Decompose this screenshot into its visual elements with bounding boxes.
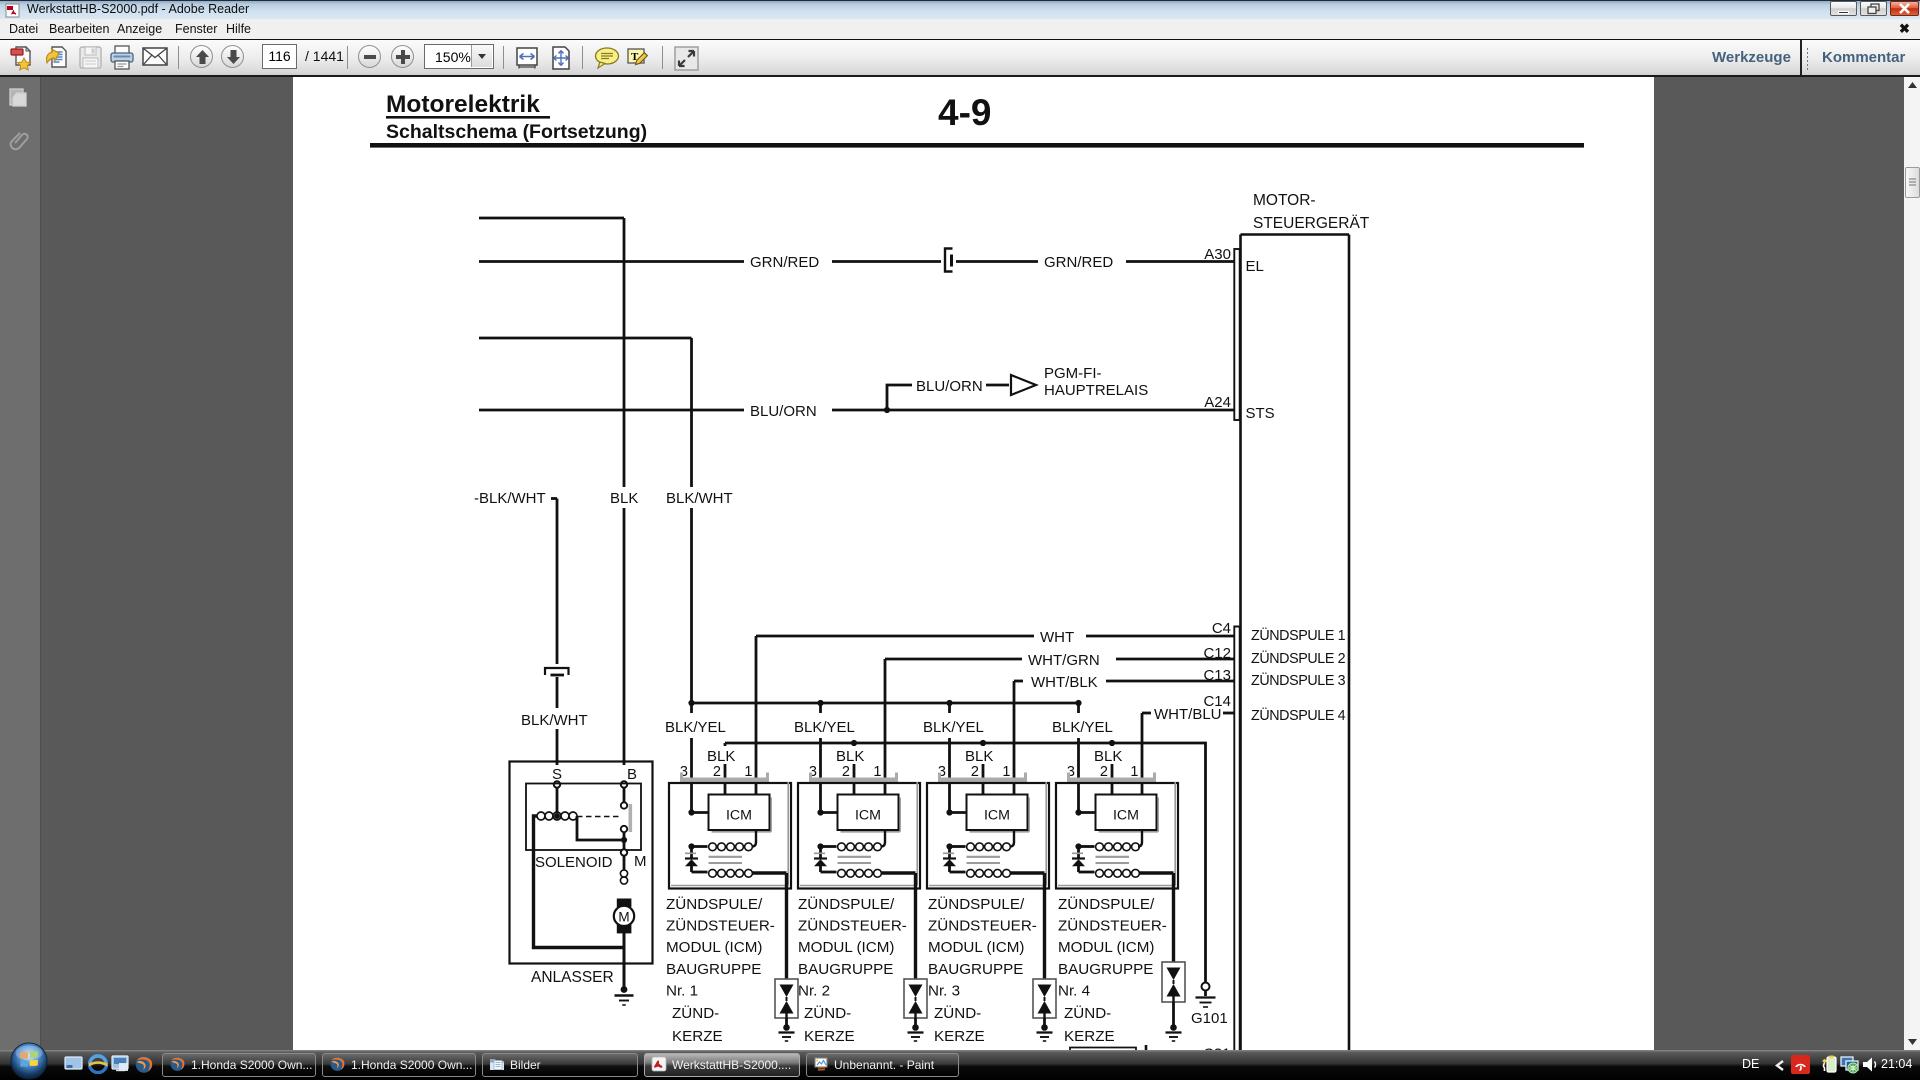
junction pin3 to ICM3 xyxy=(946,809,966,815)
junction pin3 to ICM2 xyxy=(817,809,837,815)
transformer T4 core xyxy=(1096,857,1130,863)
wire BLU/ORN to ECU pin A24 xyxy=(479,409,1234,412)
svg-text:BLK: BLK xyxy=(1094,748,1122,765)
contact (upper) xyxy=(621,802,627,808)
svg-text:MODUL (ICM): MODUL (ICM) xyxy=(798,939,894,956)
wire BLK drop ICM2 pin 2 xyxy=(853,743,856,796)
node ZUENDSPULE/ZUENDSTEUER-MODUL (ICM) BAUGRUPPE Nr. 1 label xyxy=(666,895,775,1045)
ground (spark plug 1) xyxy=(779,1024,795,1041)
node ZUENDSPULE 2 label xyxy=(1251,649,1346,667)
pin numbers ICM2 xyxy=(809,764,882,780)
junction primary coil T4 xyxy=(1075,843,1081,849)
fit page icon xyxy=(549,46,573,70)
svg-text:Nr. 4: Nr. 4 xyxy=(1058,983,1090,1000)
solenoid coil xyxy=(537,812,577,820)
spark plug ZUENDKERZE 4 xyxy=(1162,962,1185,1002)
svg-text:A30: A30 xyxy=(1204,246,1231,263)
pin C12 xyxy=(1203,645,1231,662)
svg-text:BAUGRUPPE: BAUGRUPPE xyxy=(666,961,761,978)
svg-text:GRN/RED: GRN/RED xyxy=(750,254,819,271)
contact actuator bar xyxy=(629,804,633,832)
junction BLK/YEL bus / ICM3 pin 3 xyxy=(946,700,952,706)
starter ANLASSER outer box xyxy=(510,762,653,964)
linkage (dashed) xyxy=(577,816,620,818)
wire B to contact xyxy=(623,788,626,802)
node BLK/YEL label 1 xyxy=(663,713,726,738)
node ANLASSER label xyxy=(531,969,614,986)
spark plug ZUENDKERZE 3 xyxy=(1033,979,1056,1018)
wire BLK/YEL drop ICM1 pin 3 xyxy=(690,703,693,813)
node ZUENDSPULE/ZUENDSTEUER-MODUL (ICM) BAUGRUPPE Nr. 4 label xyxy=(1058,895,1167,1045)
wire branch to PGM-FI main relay xyxy=(887,385,1009,410)
svg-text:MODUL (ICM): MODUL (ICM) xyxy=(1058,939,1154,956)
contact (lower) xyxy=(621,826,627,832)
transformer T1 core xyxy=(709,857,743,863)
box partial (bottom) xyxy=(1070,1048,1136,1052)
svg-text:ZÜND-: ZÜND- xyxy=(934,1004,981,1022)
page header title xyxy=(386,91,647,143)
junction BLK bus / ICM3 pin 2 xyxy=(980,740,986,746)
svg-text:ZÜNDSPULE/: ZÜNDSPULE/ xyxy=(666,895,763,913)
ICM2 assembly box xyxy=(798,782,920,889)
terminal S xyxy=(550,765,566,788)
svg-text:BLK/WHT: BLK/WHT xyxy=(666,490,733,507)
ECU connector bracket C xyxy=(1234,627,1239,1052)
connector strip ICM4 xyxy=(1067,773,1156,783)
create-pdf icon xyxy=(10,45,35,71)
node BLK/WHT label (mid column) xyxy=(663,487,733,508)
pin STS label xyxy=(1246,405,1275,422)
header rule xyxy=(370,143,1584,148)
svg-text:PGM-FI-: PGM-FI- xyxy=(1044,365,1102,382)
svg-text:ZÜNDSTEUER-: ZÜNDSTEUER- xyxy=(1058,917,1167,935)
svg-text:Nr. 1: Nr. 1 xyxy=(666,983,698,1000)
svg-text:BLK/YEL: BLK/YEL xyxy=(923,719,984,736)
junction BLK bus / ICM2 pin 2 xyxy=(851,740,857,746)
svg-text:ZÜNDSPULE/: ZÜNDSPULE/ xyxy=(1058,895,1155,913)
node BLK/YEL label 2 xyxy=(792,713,855,738)
node C31 partial label xyxy=(1203,1046,1231,1063)
pin numbers ICM4 xyxy=(1067,764,1139,780)
connector in-line (BLK/WHT) xyxy=(545,668,569,675)
svg-text:C4: C4 xyxy=(1212,620,1231,637)
svg-text:BLK: BLK xyxy=(836,748,864,765)
email icon xyxy=(142,47,168,67)
wire BLK/YEL drop ICM2 pin 3 xyxy=(819,703,822,813)
spark plug ZUENDKERZE 2 xyxy=(904,979,927,1018)
wire GRN/RED to ECU pin A30 xyxy=(479,260,1234,263)
transformer T1 primary xyxy=(692,830,757,851)
svg-text:BLK: BLK xyxy=(965,748,993,765)
page number 4-9 xyxy=(938,92,991,133)
save icon (disabled) xyxy=(78,45,103,71)
svg-text:ICM: ICM xyxy=(984,808,1010,824)
node BLK label 2 xyxy=(833,746,871,765)
junction pin3 to ICM4 xyxy=(1075,809,1095,815)
node BLK/WHT label (lower) xyxy=(518,708,592,729)
junction pin3 to ICM1 xyxy=(688,809,708,815)
svg-text:BLK: BLK xyxy=(610,490,638,507)
svg-text:KERZE: KERZE xyxy=(1064,1028,1115,1045)
junction BLU/ORN branch xyxy=(884,407,890,413)
node ZUENDSPULE 1 label xyxy=(1251,626,1346,644)
svg-text:C12: C12 xyxy=(1203,645,1231,662)
svg-text:4-9: 4-9 xyxy=(938,92,991,133)
tray xyxy=(1742,1057,1759,1071)
wire BLK/YEL drop ICM3 pin 3 xyxy=(948,703,951,813)
svg-text:STS: STS xyxy=(1246,405,1275,422)
node ZUENDSPULE/ZUENDSTEUER-MODUL (ICM) BAUGRUPPE Nr. 3 label xyxy=(928,895,1037,1045)
svg-text:A24: A24 xyxy=(1204,394,1231,411)
page up xyxy=(190,45,213,68)
transformer T2 primary xyxy=(821,830,886,851)
pin C4 xyxy=(1212,620,1231,637)
connector in-line (GRN/RED) xyxy=(945,249,953,272)
svg-text:ZÜND-: ZÜND- xyxy=(804,1004,851,1022)
svg-text:BLK/YEL: BLK/YEL xyxy=(665,719,726,736)
node G101 label xyxy=(1191,1010,1228,1027)
wire BLK/YEL bus xyxy=(692,702,1079,705)
terminal B xyxy=(620,765,640,788)
transformer T3 secondary xyxy=(950,869,1045,877)
wire BLK drop ICM1 pin 2 xyxy=(724,743,727,796)
svg-text:Nr. 2: Nr. 2 xyxy=(798,983,830,1000)
svg-text:BAUGRUPPE: BAUGRUPPE xyxy=(1058,961,1153,978)
svg-text:ICM: ICM xyxy=(1113,808,1139,824)
node BLK label 1 xyxy=(704,746,742,765)
svg-text:ICM: ICM xyxy=(726,808,752,824)
svg-text:G101: G101 xyxy=(1191,1010,1228,1027)
wire plug 2 to ground xyxy=(914,1018,917,1025)
pin numbers ICM1 xyxy=(680,764,753,780)
node WHT/BLK label xyxy=(1031,674,1098,691)
svg-text:ZÜNDSPULE 2: ZÜNDSPULE 2 xyxy=(1251,649,1346,667)
svg-text:BAUGRUPPE: BAUGRUPPE xyxy=(928,961,1023,978)
pin A24 xyxy=(1204,394,1231,411)
node PGM-FI-HAUPTRELAIS label xyxy=(1044,365,1148,399)
junction BLK/YEL bus / ICM4 pin 3 xyxy=(1075,700,1081,706)
ICM4 assembly box xyxy=(1056,782,1178,889)
spark plug ZUENDKERZE 1 xyxy=(775,979,798,1018)
ICM1 assembly box xyxy=(669,782,791,889)
comment bubble icon xyxy=(594,47,620,71)
svg-text:ZÜNDSTEUER-: ZÜNDSTEUER- xyxy=(666,917,775,935)
ECU box xyxy=(1241,235,1350,1052)
svg-text:WHT: WHT xyxy=(1040,629,1074,646)
diode D2 xyxy=(814,847,827,873)
svg-text:Schaltschema (Fortsetzung): Schaltschema (Fortsetzung) xyxy=(386,121,647,143)
wire BLK/YEL drop ICM4 pin 3 xyxy=(1077,703,1080,813)
diode D4 xyxy=(1072,847,1085,873)
pin numbers ICM3 xyxy=(938,764,1011,780)
node ZUENDSPULE 4 label xyxy=(1251,706,1346,724)
junction BLK bus / ICM4 pin 2 xyxy=(1109,740,1115,746)
motor M1 (starter motor) xyxy=(614,899,634,934)
transformer T4 secondary xyxy=(1079,869,1174,877)
transformer T4 primary xyxy=(1079,830,1143,851)
ground G101 xyxy=(1196,983,1216,1008)
wire ignition-switch feed (top) xyxy=(479,218,624,784)
diode D1 xyxy=(685,847,698,873)
pin C14 xyxy=(1203,693,1231,710)
junction BLK/YEL bus / ICM2 pin 3 xyxy=(817,700,823,706)
wire coil right to M node xyxy=(577,816,621,840)
ground (starter) xyxy=(615,986,634,1005)
ground (spark plug 3) xyxy=(1037,1024,1053,1041)
wire motor to ground xyxy=(623,933,626,988)
svg-text:BLK/YEL: BLK/YEL xyxy=(794,719,855,736)
node BLK label 4 xyxy=(1091,746,1129,765)
node GRN/RED label (left) xyxy=(744,250,832,273)
wire BLK drop ICM4 pin 2 xyxy=(1111,743,1114,796)
node SOLENOID label xyxy=(535,854,613,871)
transformer T1 secondary xyxy=(692,869,787,877)
node BLK/YEL label 3 xyxy=(921,713,984,738)
svg-text:BLU/ORN: BLU/ORN xyxy=(916,378,983,395)
fullscreen icon xyxy=(674,46,699,71)
open icon xyxy=(44,45,69,71)
svg-text:BLK/YEL: BLK/YEL xyxy=(1052,719,1113,736)
pin C13 xyxy=(1203,667,1231,684)
node GRN/RED label (right) xyxy=(1038,250,1126,273)
transformer T3 core xyxy=(967,857,1001,863)
quick launch icons xyxy=(64,1056,83,1072)
svg-text:BAUGRUPPE: BAUGRUPPE xyxy=(798,961,893,978)
junction BLK/YEL bus / ICM1 pin 3 xyxy=(688,700,694,706)
svg-text:-BLK/WHT: -BLK/WHT xyxy=(474,490,546,507)
wire WHT/BLU from C14 to ICM4 pin1 xyxy=(1142,713,1234,796)
transformer T3 primary xyxy=(950,830,1015,851)
wire coil output 2 xyxy=(914,873,917,979)
op ICM module U2 xyxy=(838,795,901,832)
svg-text:ICM: ICM xyxy=(855,808,881,824)
svg-text:ZÜNDSPULE/: ZÜNDSPULE/ xyxy=(928,895,1025,913)
solenoid inner box xyxy=(526,784,641,851)
pin A30 xyxy=(1204,246,1231,263)
svg-text:WHT/GRN: WHT/GRN xyxy=(1028,652,1100,669)
ECU connector bracket A xyxy=(1234,249,1239,420)
diode D3 xyxy=(943,847,956,873)
op ICM module U4 xyxy=(1096,795,1159,832)
wire plug 4 to ground xyxy=(1172,1002,1175,1025)
start orb xyxy=(8,1042,50,1080)
node BLK label 3 xyxy=(962,746,1000,765)
fit width icon xyxy=(515,46,539,70)
wire coil output 4 xyxy=(1172,873,1175,962)
svg-text:ANLASSER: ANLASSER xyxy=(531,969,614,986)
motor field coil xyxy=(620,856,627,884)
wire S to solenoid coil xyxy=(556,788,559,813)
svg-text:ZÜNDSTEUER-: ZÜNDSTEUER- xyxy=(928,917,1037,935)
transformer T2 secondary xyxy=(821,869,916,877)
node WHT/GRN label xyxy=(1022,650,1116,670)
page down xyxy=(221,45,244,68)
svg-text:SOLENOID: SOLENOID xyxy=(535,854,613,871)
svg-text:EL: EL xyxy=(1246,258,1264,275)
svg-text:STEUERGERÄT: STEUERGERÄT xyxy=(1253,215,1370,232)
svg-text:ZÜND-: ZÜND- xyxy=(1064,1004,1111,1022)
svg-text:C13: C13 xyxy=(1203,667,1231,684)
svg-text:KERZE: KERZE xyxy=(804,1028,855,1045)
pin EL label xyxy=(1246,258,1264,275)
svg-text:ZÜNDSTEUER-: ZÜNDSTEUER- xyxy=(798,917,907,935)
node BLU/ORN label (on wire) xyxy=(744,399,832,422)
svg-text:M: M xyxy=(634,853,647,870)
svg-text:BLK/WHT: BLK/WHT xyxy=(521,712,588,729)
wire BLK/WHT to starter solenoid S xyxy=(474,490,557,784)
svg-text:WHT/BLK: WHT/BLK xyxy=(1031,674,1098,691)
svg-text:BLK: BLK xyxy=(707,748,735,765)
wire WHT/BLK from C13 to ICM3 pin1 xyxy=(1014,681,1234,796)
wire WHT from C4 to ICM1 pin1 xyxy=(756,636,1234,796)
print icon xyxy=(109,45,135,71)
svg-text:ZÜNDSPULE 3: ZÜNDSPULE 3 xyxy=(1251,671,1346,689)
wire plug 3 to ground xyxy=(1043,1018,1046,1025)
connector strip ICM1 xyxy=(680,773,769,783)
ICM3 assembly box xyxy=(927,782,1049,889)
wire coil output 3 xyxy=(1043,873,1046,979)
node BLK/YEL label 4 xyxy=(1050,713,1113,738)
svg-text:ZÜNDSPULE 1: ZÜNDSPULE 1 xyxy=(1251,626,1346,644)
junction at M xyxy=(621,832,627,849)
svg-text:KERZE: KERZE xyxy=(934,1028,985,1045)
junction primary coil T2 xyxy=(817,843,823,849)
svg-text:M: M xyxy=(618,910,629,925)
node WHT/BLU label xyxy=(1154,706,1222,723)
svg-text:C14: C14 xyxy=(1203,693,1231,710)
wire plug 1 to ground xyxy=(785,1018,788,1025)
wire coil left to motor return xyxy=(534,816,625,948)
wire WHT/GRN from C12 to ICM2 pin1 xyxy=(885,659,1234,796)
node BLU/ORN label (branch) xyxy=(916,378,983,395)
svg-text:MOTOR-: MOTOR- xyxy=(1253,192,1316,209)
ground (spark plug 4) xyxy=(1166,1024,1182,1041)
svg-text:GRN/RED: GRN/RED xyxy=(1044,254,1113,271)
svg-text:KERZE: KERZE xyxy=(672,1028,723,1045)
transformer T2 core xyxy=(838,857,872,863)
node ZUENDSPULE 3 label xyxy=(1251,671,1346,689)
wire BLK ground bus to G101 xyxy=(725,743,1206,982)
zoom out xyxy=(358,45,381,68)
wire partial (bottom) xyxy=(1145,1045,1148,1051)
wire coil output 1 xyxy=(785,873,788,979)
wire BLK/WHT feed (second) xyxy=(479,338,692,704)
op ICM module U3 xyxy=(967,795,1030,832)
connector strip ICM2 xyxy=(809,773,898,783)
highlight icon xyxy=(627,46,653,71)
svg-text:MODUL (ICM): MODUL (ICM) xyxy=(928,939,1024,956)
node BLK label xyxy=(606,487,642,508)
op ICM module U1 xyxy=(709,795,772,832)
zoom in xyxy=(391,45,414,68)
svg-text:HAUPTRELAIS: HAUPTRELAIS xyxy=(1044,382,1148,399)
junction primary coil T1 xyxy=(688,843,694,849)
svg-text:ZÜND-: ZÜND- xyxy=(672,1004,719,1022)
connector strip ICM3 xyxy=(938,773,1027,783)
svg-text:B: B xyxy=(627,766,637,783)
wire BLK drop ICM3 pin 2 xyxy=(982,743,985,796)
terminal M xyxy=(621,849,647,870)
svg-text:ZÜNDSPULE 4: ZÜNDSPULE 4 xyxy=(1251,706,1346,724)
svg-text:Nr. 3: Nr. 3 xyxy=(928,983,960,1000)
arrow to PGM-FI-HAUPTRELAIS xyxy=(1011,375,1036,395)
junction primary coil T3 xyxy=(946,843,952,849)
svg-text:ZÜNDSPULE/: ZÜNDSPULE/ xyxy=(798,895,895,913)
ECU MOTOR-STEUERGERAET label xyxy=(1253,192,1370,232)
ground (spark plug 2) xyxy=(908,1024,924,1041)
svg-text:BLU/ORN: BLU/ORN xyxy=(750,403,817,420)
node WHT label xyxy=(1034,627,1086,647)
svg-text:Motorelektrik: Motorelektrik xyxy=(386,91,540,118)
svg-text:MODUL (ICM): MODUL (ICM) xyxy=(666,939,762,956)
node ZUENDSPULE/ZUENDSTEUER-MODUL (ICM) BAUGRUPPE Nr. 2 label xyxy=(798,895,907,1045)
